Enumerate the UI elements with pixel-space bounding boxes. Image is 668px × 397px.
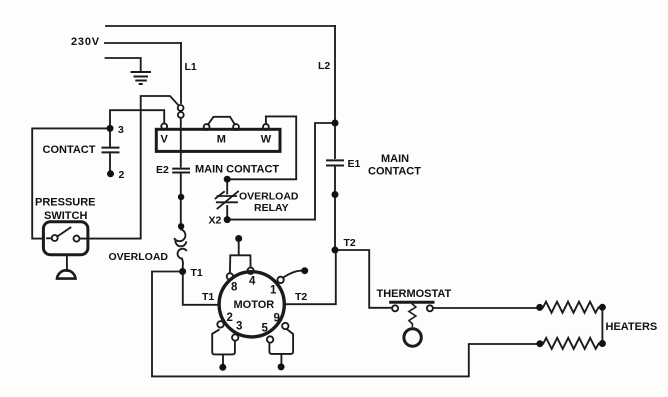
wire: T2 node to thermostat [338, 250, 391, 308]
svg-text:T2: T2 [344, 237, 356, 249]
motor pin 4 [247, 268, 253, 274]
wire: W wrap-around to overload relay [230, 116, 296, 179]
node: overload relay top dot [224, 176, 231, 183]
node: E1 bottom dot [332, 191, 339, 198]
node: dot above overload element [178, 223, 184, 229]
svg-text:RELAY: RELAY [254, 202, 289, 214]
motor bottom-left terminal [212, 330, 235, 355]
svg-text:9: 9 [274, 313, 280, 325]
node: L2 junction to E1 [332, 120, 339, 127]
pressure switch box [43, 222, 88, 255]
wire: thermostat to heater 1 [433, 307, 537, 309]
motor top terminal [235, 235, 242, 242]
node 2 [107, 170, 114, 177]
wire: V terminal to node 3 riser [110, 110, 164, 131]
svg-text:3: 3 [118, 124, 124, 136]
svg-text:MAIN CONTACT: MAIN CONTACT [195, 164, 279, 176]
svg-text:2: 2 [227, 312, 233, 324]
node: terminal dot on L1 [178, 194, 184, 200]
svg-text:4: 4 [249, 276, 256, 288]
svg-text:X2: X2 [209, 215, 222, 227]
terminal V circle [161, 123, 167, 129]
wire: motor T2 to T2 node [286, 253, 336, 304]
svg-text:L1: L1 [185, 61, 197, 73]
wire: junction to E1 [334, 126, 336, 158]
wire: pressure switch to return riser [88, 238, 140, 240]
wire: node 3 to pressure switch loop [32, 128, 107, 238]
ground [132, 72, 151, 84]
node T2 [332, 247, 339, 254]
svg-text:THERMOSTAT: THERMOSTAT [377, 288, 452, 300]
motor bottom-right terminal [269, 329, 293, 354]
motor pin 8 [227, 273, 233, 279]
svg-text:MOTOR: MOTOR [234, 299, 275, 311]
capacitor E1 [327, 160, 343, 165]
svg-text:PRESSURE: PRESSURE [35, 197, 96, 209]
wire: E2 to overload element [180, 175, 182, 230]
capacitor E2 [173, 169, 189, 173]
svg-text:HEATERS: HEATERS [606, 321, 658, 333]
overload relay NC contact [226, 182, 228, 194]
svg-text:3: 3 [236, 321, 242, 333]
wire: E1 to T2 node [334, 168, 336, 248]
svg-text:CONTACT: CONTACT [368, 166, 421, 178]
svg-text:CONTACT: CONTACT [43, 144, 96, 156]
node X2 [224, 216, 231, 223]
node 3 [107, 125, 114, 132]
main contact bar V M W [156, 129, 280, 151]
motor body [219, 272, 284, 337]
contactor L1 contact circles [178, 105, 184, 111]
terminal W circle [263, 124, 269, 130]
node T1 [179, 268, 186, 275]
svg-text:W: W [261, 134, 272, 146]
wire: overload to T1 node [181, 259, 184, 269]
svg-text:5: 5 [262, 323, 269, 335]
svg-text:MAIN: MAIN [381, 153, 409, 165]
motor pin 2 [217, 321, 223, 327]
svg-text:T1: T1 [202, 291, 214, 303]
contact capacitor between 3 and 2 [109, 132, 111, 171]
pressure switch contacts [52, 235, 58, 241]
svg-text:2: 2 [119, 169, 125, 181]
overload heater element (S-hooks) [175, 230, 186, 242]
wire: L1 below contact through bar to E2 [180, 118, 182, 167]
wire: 230V line to L1 [105, 42, 181, 44]
motor pin 1 pigtail to dot [283, 271, 302, 278]
svg-text:T2: T2 [295, 291, 307, 303]
motor pin 1 [277, 277, 283, 283]
heater 2 [536, 340, 543, 347]
svg-text:V: V [161, 134, 169, 146]
wire: ground feeder [106, 58, 141, 71]
terminal M circles with bridge [204, 124, 210, 130]
motor pin 5 [267, 336, 273, 342]
thermostat [391, 301, 433, 304]
motor pin 3 [232, 334, 238, 340]
svg-text:1: 1 [270, 285, 277, 297]
wire: T1 node to motor [183, 275, 218, 305]
heater 1 [536, 304, 543, 311]
svg-text:E2: E2 [156, 164, 169, 176]
wire: top feeder 230V to L2 [106, 25, 335, 27]
pressure switch actuator stem and dome [66, 255, 68, 271]
wire: heater joining right side [601, 310, 603, 340]
wire: pressure-switch return riser [141, 96, 178, 239]
svg-text:8: 8 [231, 282, 238, 294]
wire: L2 vertical drop [334, 26, 336, 121]
svg-text:L2: L2 [318, 60, 330, 72]
wire: X2 to L2 branch [231, 123, 333, 220]
wire: T1 loop to heaters return [152, 272, 537, 377]
wire: L1 vertical drop [180, 43, 182, 103]
svg-text:OVERLOAD: OVERLOAD [109, 251, 169, 263]
svg-text:OVERLOAD: OVERLOAD [239, 191, 299, 203]
svg-text:E1: E1 [348, 158, 361, 170]
svg-text:230V: 230V [71, 36, 100, 48]
svg-text:M: M [217, 134, 226, 146]
svg-text:T1: T1 [191, 267, 203, 279]
motor pin 9 [282, 323, 288, 329]
